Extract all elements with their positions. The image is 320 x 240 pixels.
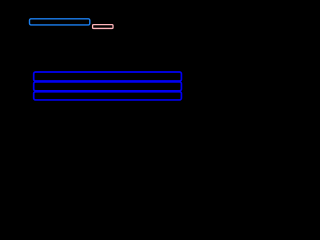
wireframe box (light blue, top-left) bbox=[30, 19, 90, 25]
list row 2 (blue) bbox=[34, 82, 182, 91]
wireframe box (pink, small) bbox=[93, 25, 113, 29]
list row 1 (blue) bbox=[34, 72, 182, 81]
list row 3 (blue) bbox=[34, 92, 182, 100]
